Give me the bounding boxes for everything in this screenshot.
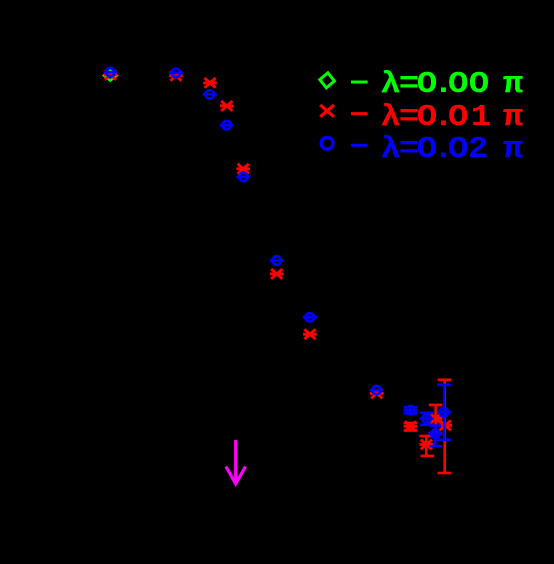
row 1 green [319, 72, 368, 89]
magenta arrow [226, 440, 246, 484]
R11 bar [434, 405, 437, 433]
R12 bar [443, 380, 446, 473]
B9 bar [409, 407, 412, 413]
green series [104, 71, 117, 81]
blue series [103, 68, 451, 446]
svg-text:O: O [448, 100, 468, 135]
red series [104, 70, 452, 473]
svg-text:2: 2 [468, 131, 488, 166]
R9 bar [409, 423, 412, 431]
R10 bar [425, 436, 428, 456]
error bars first [404, 380, 452, 473]
B10 bar [425, 413, 428, 425]
svg-text:π: π [503, 66, 524, 101]
row 3 blue [321, 137, 367, 149]
svg-text:O: O [448, 66, 468, 101]
legend [319, 66, 524, 166]
svg-text:O: O [448, 131, 468, 166]
svg-text:O: O [469, 66, 489, 101]
svg-text:λ: λ [380, 100, 400, 135]
svg-text:λ: λ [380, 131, 400, 166]
svg-text:π: π [503, 100, 524, 135]
B11 bar [434, 426, 437, 447]
svg-text:λ: λ [380, 66, 400, 101]
B12 bar [443, 385, 446, 440]
row 2 red [320, 105, 367, 117]
svg-text:π: π [503, 131, 524, 166]
svg-text:1: 1 [471, 100, 491, 135]
